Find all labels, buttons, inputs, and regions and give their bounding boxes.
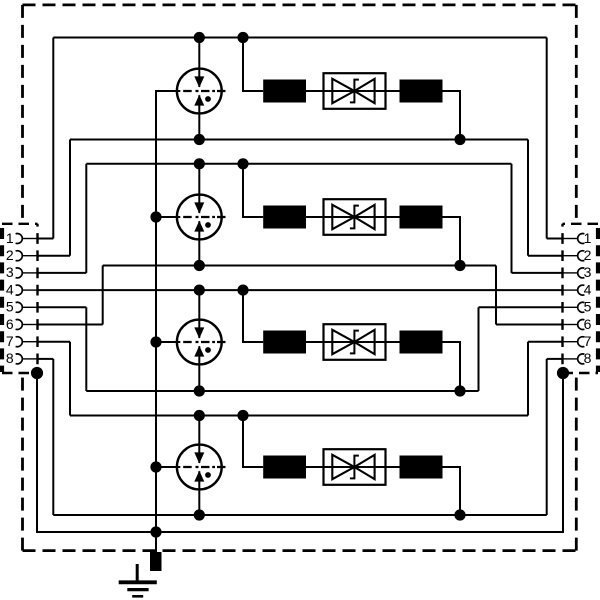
wire right terminal 1 stub and feeder (547, 38, 578, 239)
wire line b4 (y=515.0) (53, 514, 546, 516)
gas discharge tube F2 upper electrode arrow (194, 202, 204, 213)
left terminal 2 contact arc (16, 251, 23, 261)
gas discharge tube F2 center electrode dash-dot line (183, 216, 225, 218)
wire suppressor box to resistor R4b (386, 466, 400, 468)
gas discharge tube F4 lead to line b4 (198, 471, 200, 515)
wire right terminal 5 stub and feeder (479, 307, 579, 391)
wire line b2 (y=265.5) (103, 265, 496, 267)
node line b4 / gas tube F4 (194, 509, 205, 520)
wire line b1 (y=139.5) (70, 139, 528, 141)
gas discharge tube F4 circle (177, 445, 222, 490)
wire left terminal 8 stub and feeder (23, 359, 54, 515)
wire right terminal 3 stub and feeder (512, 164, 579, 273)
node line b1 / chain 1 (454, 134, 465, 145)
device enclosure dashed border (right edge lower) (575, 373, 578, 551)
node earth bus / gas tube F4 (150, 461, 161, 472)
node line a1 / chain 1 (237, 32, 248, 43)
svg-text:3: 3 (6, 264, 14, 280)
node line b1 / gas tube F1 (194, 134, 205, 145)
right terminal 2 contact arc (578, 251, 585, 261)
wire chain 4 drop to line b4 (443, 467, 461, 515)
svg-text:8: 8 (584, 350, 592, 366)
gas discharge tube F4 fail-safe indicator dot (205, 472, 211, 478)
left terminal 5 contact arc (16, 302, 23, 312)
right terminal 5 contact arc (578, 302, 585, 312)
wire earth bus tap to gas tube F2 (156, 216, 180, 218)
resistor R2a (263, 206, 306, 229)
ground symbol bar 2 (127, 588, 148, 591)
gas discharge tube F4 upper electrode arrow (194, 452, 204, 463)
resistor R3b (400, 331, 443, 354)
wire line a2 (y=163.8) (86, 163, 511, 165)
wire earth bus tap to gas tube F4 (156, 466, 180, 468)
wire resistor R3a to suppressor box (306, 341, 324, 343)
right terminal 7 contact arc (578, 337, 585, 347)
node left shield pin (31, 367, 43, 379)
suppressor diode V3 cathode bar with hooks (350, 331, 359, 354)
device enclosure dashed border (bottom edge) (23, 549, 577, 552)
svg-text:2: 2 (6, 247, 14, 263)
gas discharge tube F3 circle (177, 320, 222, 365)
resistor R4a (263, 456, 306, 479)
suppressor diode V2 left triangle (332, 205, 354, 229)
svg-text:5: 5 (6, 299, 14, 315)
svg-text:6: 6 (584, 316, 592, 332)
suppressor diode V4 left triangle (332, 455, 354, 479)
svg-text:8: 8 (6, 350, 14, 366)
svg-text:4: 4 (584, 281, 592, 297)
gas discharge tube F1 lead from line a1 (198, 38, 200, 88)
node earth bus / shield collector (150, 526, 161, 537)
wire chain 1 drop from line a1 (243, 38, 263, 92)
device enclosure dashed border (left edge lower) (21, 373, 24, 551)
right terminal 4 contact arc (578, 285, 585, 295)
resistor R4b (400, 456, 443, 479)
node line a4 / chain 4 (237, 410, 248, 421)
svg-text:2: 2 (584, 247, 592, 263)
gas discharge tube F1 circle (177, 69, 222, 114)
right terminal 6 contact arc (578, 320, 585, 330)
wire resistor R1a to suppressor box (306, 90, 324, 92)
device enclosure dashed border (top edge) (23, 4, 577, 7)
node line a2 / gas tube F2 (194, 158, 205, 169)
gas discharge tube F3 lower electrode arrow (194, 346, 204, 357)
gas discharge tube F1 center electrode dash-dot line (183, 90, 225, 92)
gas discharge tube F1 lower electrode arrow (194, 95, 204, 106)
node line b3 / gas tube F3 (194, 385, 205, 396)
wire chain 3 drop from line a3 (243, 290, 263, 342)
gas discharge tube F3 fail-safe indicator dot (205, 347, 211, 353)
suppressor diode V3 box (324, 324, 386, 360)
svg-text:7: 7 (584, 333, 592, 349)
wire earth bus tap to gas tube F3 (156, 341, 180, 343)
gas discharge tube F4 lower electrode arrow (194, 471, 204, 482)
gas discharge tube F4 center electrode dash-dot line (183, 466, 225, 468)
resistor R3a (263, 331, 306, 354)
suppressor diode V3 right triangle (354, 330, 374, 354)
svg-text:1: 1 (6, 230, 14, 246)
suppressor diode V4 box (324, 449, 386, 485)
device enclosure dashed border (right edge upper) (575, 5, 578, 224)
resistor R1a (263, 80, 306, 103)
suppressor diode V1 right triangle (354, 79, 374, 103)
left terminal 4 contact arc (16, 285, 23, 295)
ground symbol bar 3 (132, 595, 143, 598)
right terminal 8 contact arc (578, 354, 585, 364)
node line b2 / gas tube F2 (194, 260, 205, 271)
wire left terminal 7 stub and feeder (23, 342, 71, 416)
gas discharge tube F3 center electrode dash-dot line (183, 341, 225, 343)
suppressor diode V3 left triangle (332, 330, 354, 354)
right terminal 3 contact arc (578, 268, 585, 278)
node earth bus / gas tube F3 (150, 336, 161, 347)
suppressor diode V4 cathode bar with hooks (350, 456, 359, 479)
gas discharge tube F3 lead from line a3 (198, 290, 200, 338)
suppressor diode V2 right triangle (354, 205, 374, 229)
wire right terminal 7 stub and feeder (528, 342, 578, 416)
wire chain 3 drop to line b3 (443, 342, 461, 391)
gas discharge tube F1 upper electrode arrow (194, 76, 204, 87)
node line b2 / chain 2 (454, 260, 465, 271)
suppressor diode V1 cathode bar with hooks (350, 80, 359, 103)
wire left terminal 5 stub and feeder (23, 307, 87, 391)
wire left terminal 2 stub and feeder (23, 140, 71, 256)
ground symbol stem (136, 564, 139, 581)
wire left terminal 1 stub and feeder (23, 38, 54, 239)
svg-text:7: 7 (6, 333, 14, 349)
wire chain 2 drop to line b2 (443, 217, 461, 266)
wire chain 4 drop from line a4 (243, 416, 263, 468)
left terminal 6 contact arc (16, 320, 23, 330)
wire left terminal 6 stub and feeder (23, 266, 103, 325)
resistor R1b (400, 80, 443, 103)
suppressor diode V4 through wire (324, 466, 386, 468)
wire suppressor box to resistor R3b (386, 341, 400, 343)
node line a1 / gas tube F1 (194, 32, 205, 43)
suppressor diode V4 right triangle (354, 455, 374, 479)
gas discharge tube F4 lead from line a4 (198, 416, 200, 464)
gas discharge tube F2 circle (177, 195, 222, 240)
right terminal block dashed box (563, 224, 599, 373)
node line a4 / gas tube F4 (194, 410, 205, 421)
right terminal 1 contact arc (578, 234, 585, 244)
gas discharge tube F2 fail-safe indicator dot (205, 222, 211, 228)
svg-text:4: 4 (6, 281, 14, 297)
svg-text:1: 1 (584, 230, 592, 246)
left terminal 1 contact arc (16, 234, 23, 244)
svg-text:6: 6 (6, 316, 14, 332)
gas discharge tube F2 lead from line a2 (198, 164, 200, 213)
node right shield pin (557, 367, 569, 379)
wire resistor R2a to suppressor box (306, 216, 324, 218)
node earth bus / gas tube F2 (150, 211, 161, 222)
node line b3 / chain 3 (454, 385, 465, 396)
suppressor diode V1 through wire (324, 90, 386, 92)
node line a2 / chain 2 (237, 158, 248, 169)
wire suppressor box to resistor R1b (386, 90, 400, 92)
left terminal 8 contact arc (16, 354, 23, 364)
earth terminal block (150, 552, 162, 571)
wire right terminal 2 stub and feeder (528, 140, 578, 256)
wire chain 2 drop from line a2 (243, 164, 263, 217)
gas discharge tube F1 fail-safe indicator dot (205, 96, 211, 102)
node line b4 / chain 4 (454, 509, 465, 520)
wire right terminal 6 stub and feeder (496, 266, 578, 325)
svg-text:3: 3 (584, 264, 592, 280)
suppressor diode V1 left triangle (332, 79, 354, 103)
svg-text:5: 5 (584, 299, 592, 315)
wire line a3 (terminal 4 left to terminal 4 right, y=290.1) (23, 289, 579, 291)
gas discharge tube F3 upper electrode arrow (194, 327, 204, 338)
wire line b3 (y=391.0) (86, 390, 478, 392)
ground symbol bar 1 (119, 580, 157, 584)
earth bus vertical with tap to gas tube F1 (156, 91, 180, 554)
node line a3 / chain 3 (237, 285, 248, 296)
wire left terminal 3 stub and feeder (23, 164, 87, 273)
wire suppressor box to resistor R2b (386, 216, 400, 218)
gas discharge tube F1 lead to line b1 (198, 95, 200, 139)
gas discharge tube F2 lower electrode arrow (194, 221, 204, 232)
suppressor diode V3 through wire (324, 341, 386, 343)
wire line a1 (y=37.5) (53, 37, 546, 39)
wire chain 1 drop to line b1 (443, 91, 461, 140)
suppressor diode V1 box (324, 73, 386, 109)
gas discharge tube F2 lead to line b2 (198, 221, 200, 265)
wire shield earth collector (left pin, bottom run, right pin) (37, 373, 563, 532)
wire line a4 (y=415.5) (70, 415, 528, 417)
suppressor diode V2 through wire (324, 216, 386, 218)
node line a3 / gas tube F3 (194, 285, 205, 296)
device enclosure dashed border (left edge upper) (21, 5, 24, 224)
left terminal 7 contact arc (16, 337, 23, 347)
wire right terminal 8 stub and feeder (547, 359, 578, 515)
suppressor diode V2 box (324, 199, 386, 235)
resistor R2b (400, 206, 443, 229)
gas discharge tube F3 lead to line b3 (198, 346, 200, 391)
wire resistor R4a to suppressor box (306, 466, 324, 468)
left terminal block dashed box (2, 224, 38, 373)
left terminal 3 contact arc (16, 268, 23, 278)
suppressor diode V2 cathode bar with hooks (350, 206, 359, 229)
